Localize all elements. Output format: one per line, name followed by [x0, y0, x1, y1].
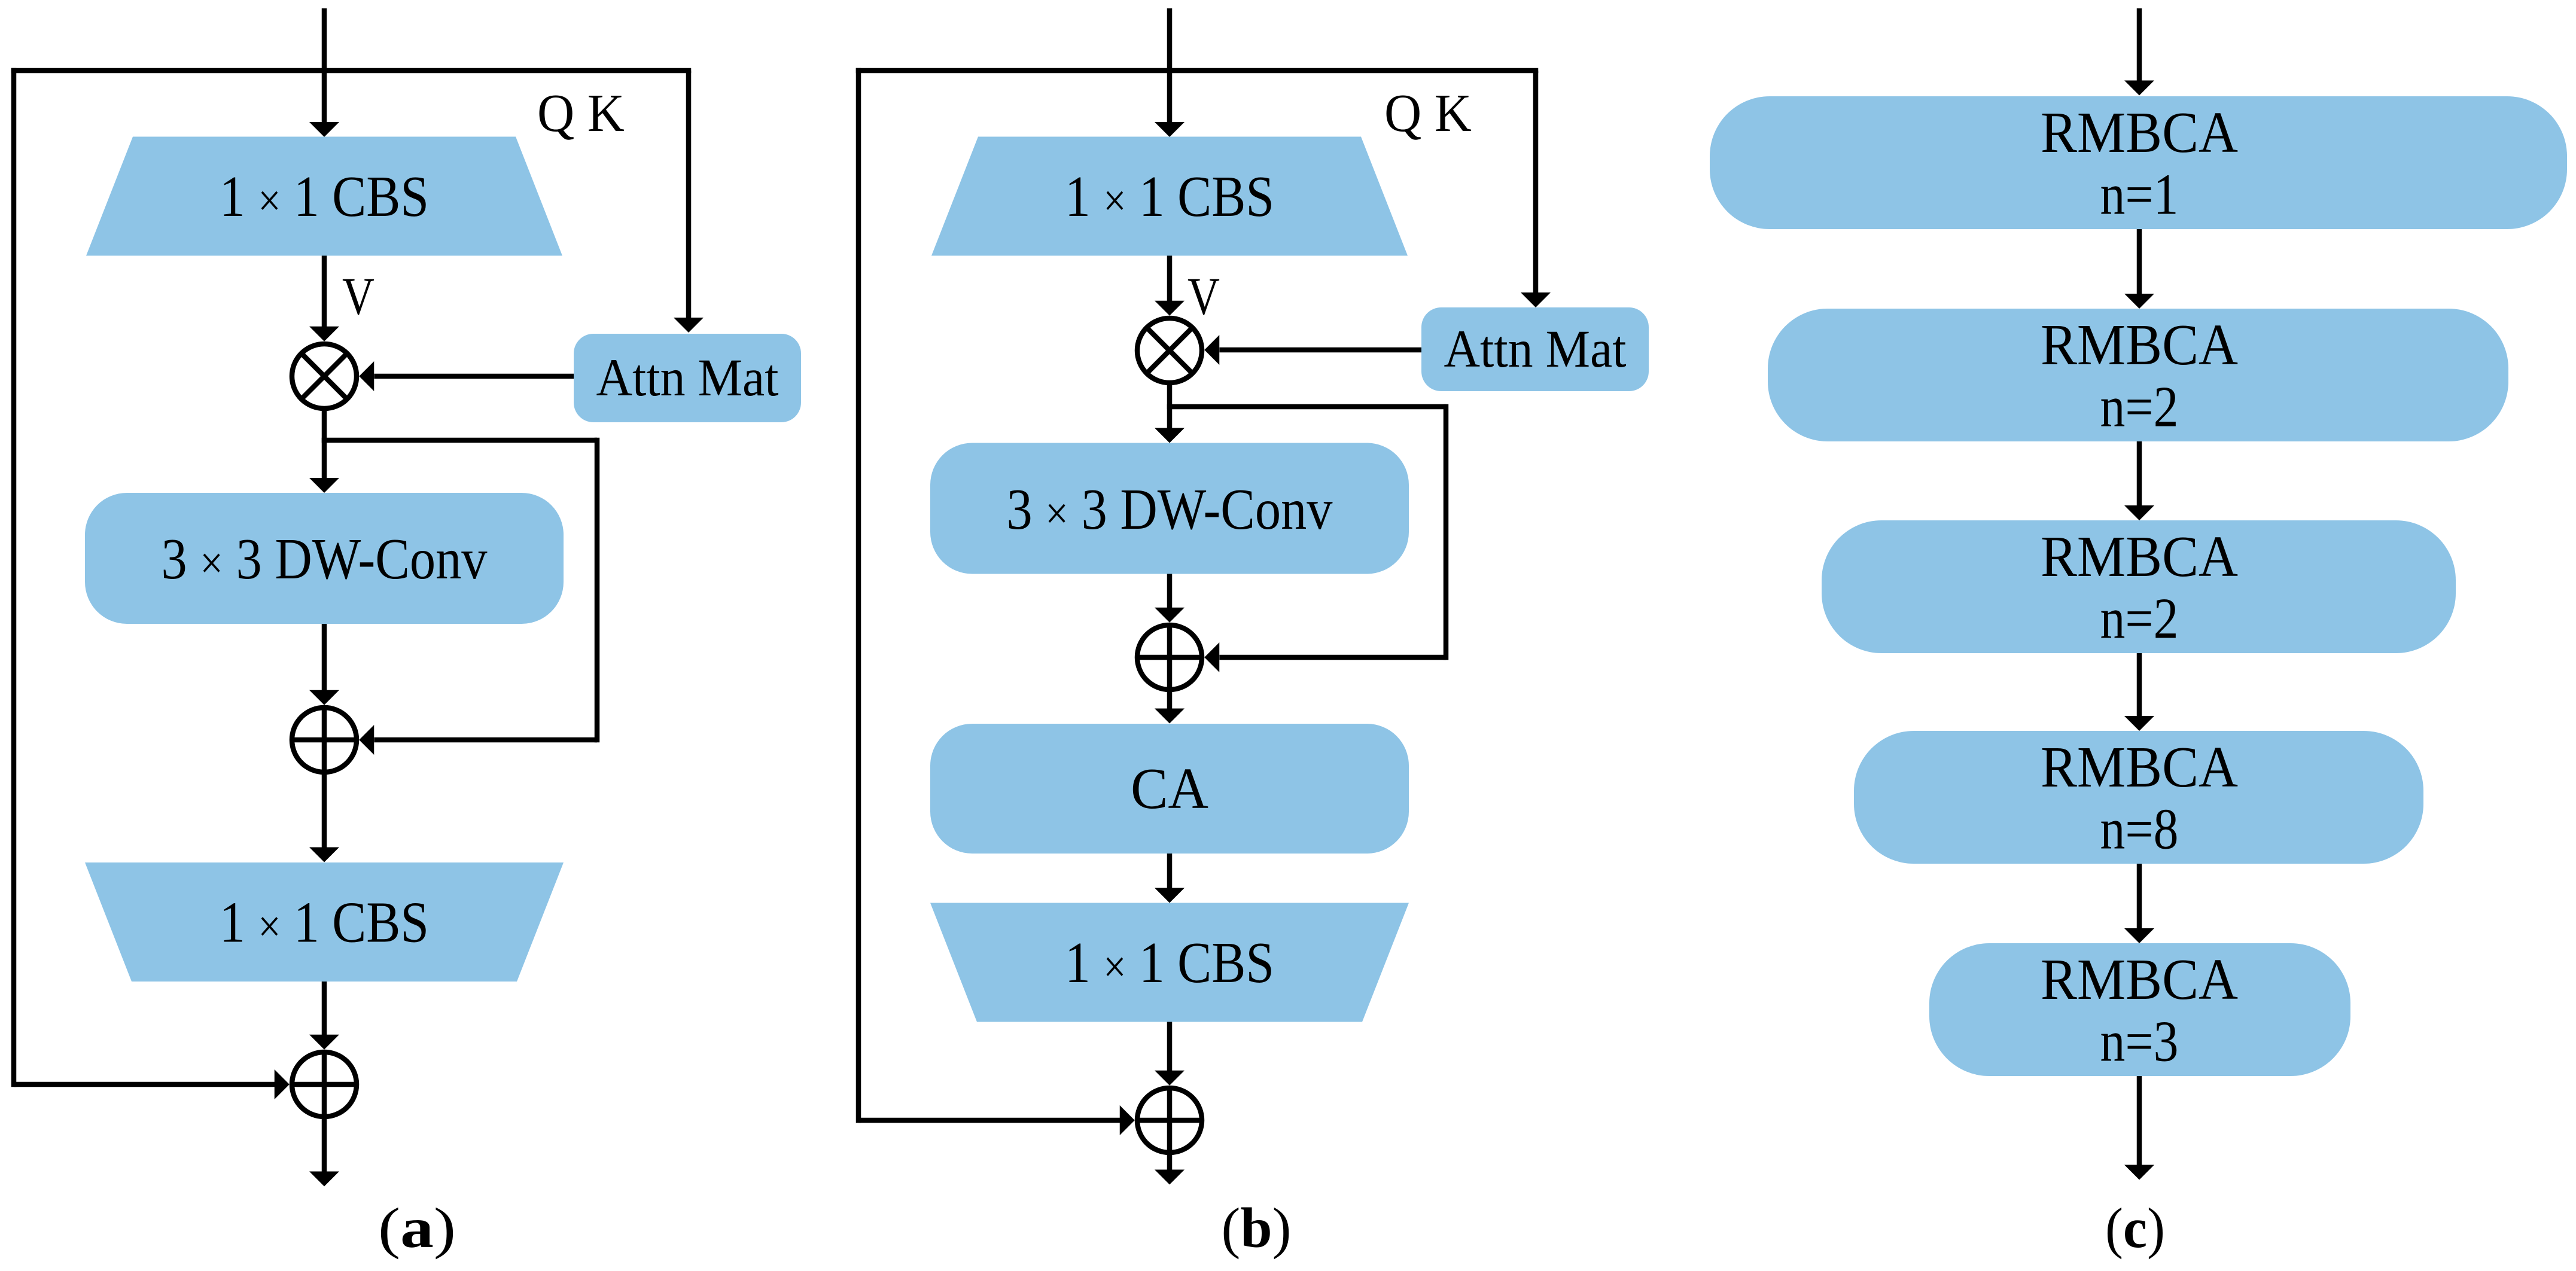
block: Attn Mat rounded box (a): [574, 334, 801, 422]
wire: residual left rail (b): [856, 68, 861, 1123]
wire: inner skip connection vertical (b): [1444, 404, 1449, 660]
text RMBCA n=1 (c): [2041, 100, 2238, 227]
wire: input arrow into first 1x1 CBS (a): [309, 8, 339, 137]
wire: inner skip connection into adder (a): [359, 725, 597, 755]
svg-text:RMBCA: RMBCA: [2041, 735, 2238, 799]
block: 3x3 DW-Conv rounded box (b): [930, 443, 1409, 574]
wire: multiplier output down with branch tee (a): [309, 411, 597, 493]
svg-text:n=1: n=1: [2100, 163, 2179, 227]
text 3x3 DW-Conv (b): [1007, 477, 1333, 541]
wire: CBS to output adder arrow (a): [309, 982, 339, 1050]
wire: CA to second 1x1 CBS arrow (b): [1155, 854, 1185, 903]
net label Q K (b): [1384, 84, 1472, 143]
text RMBCA n=3 (c): [2041, 947, 2238, 1074]
wire: residual top rail (b): [856, 68, 1539, 74]
block: RMBCA n=1 rounded box 1 (c): [1710, 96, 2567, 229]
wire: residual left rail (a): [11, 68, 17, 1087]
wire: output arrow (a): [309, 1119, 339, 1187]
svg-text:1 × 1 CBS: 1 × 1 CBS: [220, 164, 429, 228]
net label Q K (a): [537, 84, 625, 143]
wire: output arrow (b): [1155, 1155, 1185, 1185]
wire: residual bottom segment into output adder (b): [858, 1105, 1135, 1135]
svg-text:RMBCA: RMBCA: [2041, 313, 2238, 377]
wire: Q K branch down into Attn Mat (a): [674, 71, 704, 333]
block: RMBCA n=3 rounded box 5 (c): [1929, 943, 2350, 1076]
text 1x1 CBS bottom (b): [1065, 931, 1274, 995]
block: RMBCA n=8 rounded box 4 (c): [1854, 731, 2423, 864]
wire: arrow between RMBCA box 4 and box 5 (c): [2124, 864, 2154, 943]
block: first 1x1 CBS trapezoid (b): [931, 137, 1408, 256]
svg-text:(a): (a): [378, 1196, 456, 1260]
text CA (b): [1131, 757, 1208, 821]
svg-text:(b): (b): [1222, 1196, 1292, 1260]
net label V (a): [342, 267, 374, 326]
text 1x1 CBS bottom (a): [220, 891, 429, 955]
svg-text:Q K: Q K: [1384, 84, 1472, 143]
svg-text:n=2: n=2: [2100, 587, 2179, 651]
multiplier node circle-times (a): [292, 344, 357, 409]
text RMBCA n=8 (c): [2041, 735, 2238, 861]
svg-text:Q K: Q K: [537, 84, 625, 143]
svg-text:3 × 3 DW-Conv: 3 × 3 DW-Conv: [1007, 477, 1333, 541]
wire: arrow between RMBCA box 3 and box 4 (c): [2124, 653, 2154, 731]
adder node circle-plus output (a): [292, 1052, 357, 1117]
svg-text:(c): (c): [2105, 1196, 2165, 1260]
svg-text:Attn Mat: Attn Mat: [596, 349, 779, 407]
text RMBCA n=2 (c): [2041, 525, 2238, 651]
adder node circle-plus mid (a): [292, 708, 357, 772]
wire: input arrow into first 1x1 CBS (b): [1155, 8, 1185, 137]
svg-text:3 × 3 DW-Conv: 3 × 3 DW-Conv: [162, 527, 488, 591]
wire: adder to CA arrow (b): [1155, 692, 1185, 724]
adder node circle-plus output (b): [1137, 1088, 1202, 1153]
multiplier node circle-times (b): [1137, 318, 1202, 383]
svg-text:V: V: [342, 267, 374, 326]
text 1x1 CBS (b): [1065, 164, 1274, 228]
wire: Attn Mat to multiplier arrow (b): [1204, 335, 1421, 365]
wire: residual bottom segment into output adder (a): [14, 1069, 290, 1099]
wire: DW-Conv to adder arrow (b): [1155, 574, 1185, 623]
wire: residual top rail (a): [11, 68, 692, 74]
svg-text:RMBCA: RMBCA: [2041, 947, 2238, 1011]
wire: Q K branch down into Attn Mat (b): [1521, 71, 1551, 307]
text RMBCA n=2 (c): [2041, 313, 2238, 439]
svg-text:1 × 1 CBS: 1 × 1 CBS: [1065, 164, 1274, 228]
text 3x3 DW-Conv (a): [162, 527, 488, 591]
svg-text:n=8: n=8: [2100, 797, 2179, 861]
svg-text:CA: CA: [1131, 757, 1208, 821]
svg-text:RMBCA: RMBCA: [2041, 100, 2238, 164]
caption (b): [1222, 1196, 1292, 1260]
text Attn Mat (a): [596, 349, 779, 407]
wire: DW-Conv to adder arrow (a): [309, 624, 339, 705]
svg-text:Attn Mat: Attn Mat: [1444, 320, 1627, 379]
svg-text:1 × 1 CBS: 1 × 1 CBS: [1065, 931, 1274, 995]
wire: adder to second 1x1 CBS arrow (a): [309, 775, 339, 862]
block: CA rounded box (b): [930, 724, 1409, 854]
block: first 1x1 CBS trapezoid (a): [86, 137, 562, 256]
svg-text:n=3: n=3: [2100, 1010, 2179, 1074]
block: RMBCA n=2 rounded box 2 (c): [1768, 309, 2508, 441]
text Attn Mat (b): [1444, 320, 1627, 379]
svg-text:V: V: [1187, 267, 1220, 326]
caption (a): [378, 1196, 456, 1260]
wire: output arrow (c): [2124, 1076, 2154, 1180]
wire: arrow between RMBCA box 1 and box 2 (c): [2124, 229, 2154, 309]
wire: V arrow from CBS into multiplier (a): [309, 256, 339, 342]
svg-text:n=2: n=2: [2100, 375, 2179, 439]
wire: inner skip connection into adder (b): [1204, 642, 1446, 672]
wire: Attn Mat to multiplier arrow (a): [359, 361, 574, 391]
net label V (b): [1187, 267, 1220, 326]
block: RMBCA n=2 rounded box 3 (c): [1822, 520, 2456, 653]
wire: input arrow into RMBCA stack (c): [2124, 8, 2154, 96]
block: 3x3 DW-Conv rounded box (a): [85, 493, 564, 624]
text 1x1 CBS (a): [220, 164, 429, 228]
caption (c): [2105, 1196, 2165, 1260]
block: second 1x1 CBS trapezoid (a): [85, 862, 564, 982]
wire: arrow between RMBCA box 2 and box 3 (c): [2124, 441, 2154, 520]
block: Attn Mat rounded box (b): [1421, 307, 1649, 391]
wire: inner skip connection vertical (a): [595, 438, 600, 743]
block: second 1x1 CBS trapezoid (b): [930, 903, 1409, 1022]
wire: multiplier output down with branch tee (b): [1155, 385, 1446, 443]
svg-text:1 × 1 CBS: 1 × 1 CBS: [220, 891, 429, 955]
wire: V arrow from CBS into multiplier (b): [1155, 256, 1185, 316]
wire: CBS to output adder arrow (b): [1155, 1022, 1185, 1086]
adder node circle-plus mid (b): [1137, 625, 1202, 690]
svg-text:RMBCA: RMBCA: [2041, 525, 2238, 589]
